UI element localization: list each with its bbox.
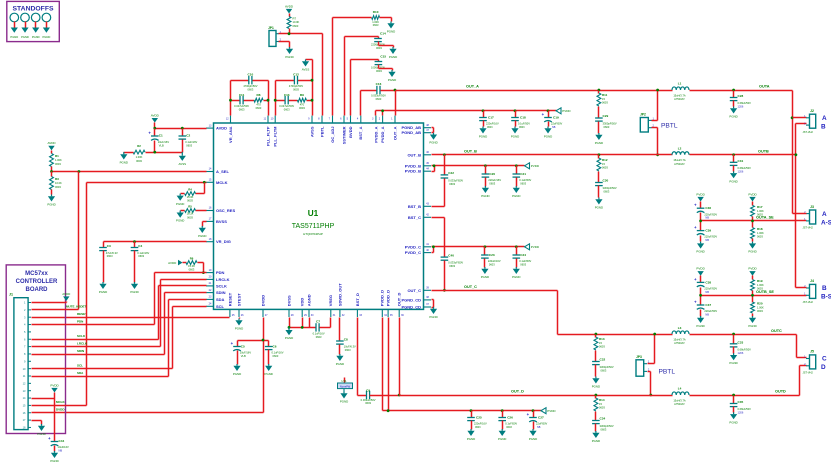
power flag AVDD (C1): [151, 113, 160, 122]
svg-text:0603: 0603: [520, 263, 526, 267]
wire R10 to ground: [380, 17, 392, 19]
svg-text:PVDD: PVDD: [547, 409, 556, 413]
resistor R10: [372, 10, 380, 27]
U1 pin 37 PGND_CD: [401, 303, 431, 309]
ground C15: [388, 70, 396, 82]
svg-text:C36: C36: [705, 206, 711, 210]
svg-text:OUTB: OUTB: [758, 149, 769, 153]
svg-text:10uF/6.3V: 10uF/6.3V: [344, 344, 356, 348]
U1 pin 21 SCLK: [206, 282, 227, 288]
ground C28: [729, 107, 737, 119]
wire JP2.2 to OUT_B: [652, 127, 658, 129]
svg-text:C24: C24: [520, 253, 526, 257]
svg-text:0603: 0603: [376, 97, 382, 101]
svg-text:220uF/50V: 220uF/50V: [704, 309, 717, 313]
wire C9 to OUT_D: [370, 395, 400, 397]
svg-text:0603: 0603: [136, 159, 142, 163]
svg-text:3300pF/50V: 3300pF/50V: [603, 186, 617, 190]
svg-text:A7503AY: A7503AY: [674, 162, 685, 166]
ground C44: [50, 451, 58, 463]
U1 pin 33 BST_D: [355, 293, 363, 317]
jumper JP3: [636, 355, 650, 376]
net SCL wire (J1): [32, 368, 173, 370]
svg-text:C28: C28: [738, 94, 744, 98]
svg-text:OUT_A: OUT_A: [392, 126, 397, 140]
svg-text:PVDD: PVDD: [531, 245, 540, 249]
svg-text:0603: 0603: [273, 354, 279, 358]
svg-text:PGND: PGND: [176, 202, 184, 206]
svg-text:PGND: PGND: [729, 420, 737, 424]
connector J3: [803, 205, 831, 230]
svg-text:0603: 0603: [601, 428, 607, 432]
svg-text:DVSS: DVSS: [286, 295, 291, 306]
resistor R9: [297, 93, 306, 110]
capacitor C2: [179, 129, 198, 153]
svg-text:0.1uF/50V: 0.1uF/50V: [505, 422, 517, 426]
U1 pin 19 PDN: [206, 269, 225, 275]
wire RESET to J1: [229, 317, 231, 319]
svg-text:J5: J5: [810, 350, 814, 354]
svg-text:0.68uF/50V: 0.68uF/50V: [738, 101, 752, 105]
power flag AVDD (R6): [168, 260, 182, 266]
U1 pin 31 VREG: [328, 295, 336, 317]
svg-text:C35: C35: [738, 400, 744, 404]
svg-text:PGND: PGND: [47, 203, 55, 207]
svg-text:PDN: PDN: [77, 320, 83, 324]
wire JP1.2 to ground: [279, 41, 290, 43]
U1 pin 17 BVSS: [206, 218, 227, 224]
U1 pin 1 OUT_A: [391, 116, 397, 140]
svg-text:PGND: PGND: [21, 35, 29, 39]
net A_SEL wire: [52, 171, 207, 173]
svg-text:PGND: PGND: [481, 194, 489, 198]
svg-text:PBTL: PBTL: [661, 123, 678, 130]
wire BST_D to C9: [357, 318, 359, 396]
svg-text:OUTD: OUTD: [775, 389, 786, 393]
ground C21: [512, 186, 520, 198]
ground STEST: [239, 318, 241, 319]
svg-text:R17: R17: [757, 205, 763, 209]
capacitor C24: [513, 245, 532, 267]
svg-text:PGND: PGND: [388, 78, 396, 82]
svg-text:PVDD: PVDD: [696, 192, 705, 196]
svg-text:0603: 0603: [599, 406, 605, 410]
svg-text:R3: R3: [55, 177, 59, 181]
svg-text:C5: C5: [241, 344, 245, 348]
U1 pin 35 PVDD_D: [386, 290, 394, 317]
ground C19: [544, 127, 552, 139]
svg-text:SDA: SDA: [216, 297, 225, 302]
svg-text:0.1uF/50V: 0.1uF/50V: [518, 122, 530, 126]
svg-text:PVDD: PVDD: [748, 192, 757, 196]
resistor R18: [751, 221, 764, 242]
svg-text:0603: 0603: [602, 166, 608, 170]
svg-text:22uF/50V: 22uF/50V: [536, 422, 548, 426]
net PDN wire (J1): [32, 324, 155, 326]
svg-text:R6: R6: [190, 256, 194, 260]
svg-text:10.0K: 10.0K: [55, 181, 62, 185]
capacitor C14: [371, 32, 386, 50]
U1 pin 26 STEST: [236, 293, 244, 317]
power flag PVDD (J1): [50, 383, 59, 392]
connector J4: [803, 279, 831, 304]
svg-text:BST_D: BST_D: [355, 293, 360, 306]
svg-text:PGND: PGND: [198, 234, 206, 238]
svg-text:A: A: [822, 211, 827, 218]
svg-text:MC57xx: MC57xx: [25, 271, 48, 277]
power flag PVDD (A rail): [556, 108, 571, 114]
svg-text:J1: J1: [9, 293, 13, 297]
svg-text:R2: R2: [137, 144, 141, 148]
power flag PVDD (OUTB_SE left): [696, 267, 705, 276]
svg-text:0603: 0603: [489, 182, 495, 186]
wire C5 C6 tap: [238, 340, 269, 342]
svg-text:C44: C44: [59, 439, 65, 443]
svg-text:LRCLK: LRCLK: [77, 342, 88, 346]
svg-text:OUT_C: OUT_C: [464, 285, 477, 289]
svg-text:PLL_FLTM: PLL_FLTM: [273, 126, 278, 147]
wire AVDD node: [154, 123, 156, 129]
net PVDD_B rail: [432, 165, 435, 167]
U1 pin 28 DVSS: [286, 295, 294, 317]
wire J2.2 to OUTB and J4.2: [796, 123, 807, 125]
svg-text:3300pF/50V: 3300pF/50V: [600, 365, 614, 369]
svg-text:R5: R5: [188, 204, 192, 208]
svg-text:PVDD: PVDD: [748, 267, 757, 271]
svg-text:PGND: PGND: [467, 437, 475, 441]
snubber R12: [598, 153, 601, 156]
svg-text:J4: J4: [810, 279, 814, 283]
svg-text:0603: 0603: [293, 24, 299, 28]
svg-text:C10: C10: [248, 72, 254, 76]
power flag PVDD (OUTA_SE left): [696, 192, 705, 201]
svg-text:PGND: PGND: [285, 55, 293, 59]
svg-text:C1: C1: [159, 134, 163, 138]
svg-text:OUT_C: OUT_C: [407, 288, 421, 293]
wire OUT_D pin down: [399, 318, 401, 396]
svg-text:VLB: VLB: [159, 143, 164, 147]
svg-text:J3: J3: [810, 205, 814, 209]
svg-text:18.2K: 18.2K: [187, 212, 194, 216]
svg-text:SDIN: SDIN: [216, 290, 226, 295]
svg-text:PGND: PGND: [235, 327, 243, 331]
svg-text:L4: L4: [678, 387, 682, 391]
svg-text:0.1uF/16V: 0.1uF/16V: [313, 331, 325, 335]
svg-text:0603: 0603: [449, 182, 455, 186]
capacitor C12: [289, 72, 303, 91]
net PDN wire: [155, 272, 207, 274]
svg-text:C27: C27: [538, 415, 544, 419]
power flag PVDD (OUTA_SE right): [748, 192, 757, 201]
svg-text:0603: 0603: [601, 369, 607, 373]
net PVDD wire (J1): [32, 398, 55, 400]
wire C1 C2 bottom rail: [146, 152, 183, 154]
svg-text:L1: L1: [678, 82, 682, 86]
ground R10: [387, 22, 395, 34]
net LRCLK wire (J1): [32, 346, 161, 348]
U1 pin 13 AVDD: [206, 124, 227, 130]
svg-text:0.1uF/16V: 0.1uF/16V: [272, 351, 284, 355]
svg-text:JST-VH2: JST-VH2: [803, 371, 814, 375]
U1 pin 5 BVDD: [347, 116, 353, 138]
svg-text:4700pF/50V: 4700pF/50V: [243, 84, 257, 88]
svg-text:0603: 0603: [757, 235, 763, 239]
ground C24: [512, 267, 520, 279]
svg-text:C6: C6: [273, 344, 277, 348]
net SDIN wire (J1): [32, 354, 165, 356]
net OUTD wire: [690, 395, 800, 397]
capacitor C18: [511, 109, 530, 129]
svg-text:PGND_AB: PGND_AB: [401, 130, 421, 135]
U1 pin 23 SDA: [206, 296, 225, 302]
power flag PVDD (OUTB_SE right): [748, 267, 757, 276]
svg-text:0603: 0603: [293, 88, 299, 92]
svg-text:15uH/3.7A: 15uH/3.7A: [673, 158, 686, 162]
svg-text:C13: C13: [284, 93, 290, 97]
svg-text:PGND: PGND: [336, 362, 344, 366]
svg-text:SCL: SCL: [77, 364, 83, 368]
capacitor C3: [99, 242, 118, 283]
capacitor C19: [542, 109, 563, 129]
svg-text:PGND: PGND: [50, 459, 58, 463]
svg-text:PVDD: PVDD: [696, 267, 705, 271]
svg-text:0603: 0603: [239, 108, 245, 112]
svg-text:A7503AY: A7503AY: [674, 97, 685, 101]
wire OUTA to J2.1: [791, 116, 794, 119]
wire J1.3 RESET: [31, 317, 33, 319]
svg-text:RESET: RESET: [227, 292, 232, 306]
U1 pin 30 AGND: [306, 294, 314, 317]
svg-text:B: B: [822, 285, 827, 292]
U1 pin 24 SCL: [206, 303, 225, 309]
svg-text:C39: C39: [705, 229, 711, 233]
U1 pin 22 SDIN: [206, 289, 226, 295]
svg-text:C25: C25: [476, 415, 482, 419]
svg-text:0603: 0603: [519, 126, 525, 129]
wire C7 to VREG: [320, 327, 331, 329]
svg-text:C40: C40: [448, 253, 454, 257]
capacitor C21: [513, 164, 532, 186]
capacitor C36: [694, 202, 717, 221]
svg-text:STANDOFFS: STANDOFFS: [12, 6, 53, 13]
wire C16 to OUT_A node: [381, 90, 396, 92]
svg-text:AVDD: AVDD: [216, 126, 227, 131]
svg-text:PGND: PGND: [529, 437, 537, 441]
svg-text:1.00K: 1.00K: [372, 20, 379, 24]
svg-text:PGND: PGND: [512, 194, 520, 198]
svg-text:C33: C33: [738, 340, 744, 344]
svg-text:PGND: PGND: [130, 290, 138, 294]
wire J4.2 stub: [796, 287, 807, 289]
standoff MH3: [31, 13, 40, 39]
svg-text:PGND: PGND: [99, 290, 107, 294]
U1 pin 39 OUT_C: [407, 287, 431, 293]
power flag PVDD (C rail): [525, 244, 540, 250]
wire BST_A to C16: [360, 91, 362, 116]
svg-text:15.0K: 15.0K: [188, 264, 195, 268]
svg-text:C14: C14: [380, 32, 386, 36]
op-amp U1 TAS5711PHP body: [214, 123, 424, 309]
svg-text:AVDD: AVDD: [62, 292, 71, 296]
ground R5: [176, 211, 184, 223]
ground R3: [47, 195, 55, 207]
svg-text:MCLK: MCLK: [56, 400, 65, 404]
wire R7 to node: [289, 29, 291, 34]
wire C14 to ground: [378, 42, 380, 46]
svg-text:PGND: PGND: [498, 437, 506, 441]
resistor R2: [124, 144, 146, 163]
svg-text:0603: 0603: [55, 185, 61, 189]
svg-text:J2: J2: [810, 109, 814, 113]
capacitor C17: [479, 109, 499, 129]
ground R4: [176, 194, 184, 206]
svg-text:LRCLK: LRCLK: [216, 277, 230, 282]
svg-text:0.033uF/50V: 0.033uF/50V: [371, 94, 386, 98]
svg-text:PGND: PGND: [595, 141, 603, 145]
svg-text:0603: 0603: [248, 88, 254, 92]
svg-text:U1: U1: [308, 209, 319, 218]
svg-text:C16: C16: [376, 82, 382, 86]
svg-text:AVSS: AVSS: [179, 162, 187, 166]
inductor L2: [672, 146, 689, 165]
svg-text:C11: C11: [239, 93, 245, 97]
svg-text:C15: C15: [380, 55, 386, 59]
svg-text:PGND: PGND: [595, 206, 603, 210]
svg-text:0603: 0603: [599, 345, 605, 349]
standoff MH1: [10, 13, 19, 39]
svg-text:C37: C37: [705, 303, 711, 307]
svg-text:0.033uF/50V: 0.033uF/50V: [448, 261, 463, 265]
svg-text:B: B: [821, 124, 826, 131]
svg-text:VDD: VDD: [300, 298, 305, 307]
svg-text:PGND: PGND: [32, 35, 40, 39]
svg-text:C29: C29: [603, 114, 609, 118]
svg-text:VLB: VLB: [241, 354, 246, 358]
svg-text:PVDD: PVDD: [531, 164, 540, 168]
svg-text:C18: C18: [520, 115, 526, 119]
svg-text:1.00K: 1.00K: [55, 158, 62, 162]
U1 pin 36 OUT_D: [397, 293, 405, 317]
svg-text:MUTE_HSDET: MUTE_HSDET: [66, 305, 87, 309]
U1 pin 11 PLL_FLTP: [263, 116, 270, 146]
svg-text:A-S: A-S: [821, 219, 831, 226]
U1 pin 45 PVDD_B: [405, 162, 431, 168]
svg-text:U71: U71: [341, 379, 347, 383]
U1 pin 38 PGND_CD: [401, 296, 431, 302]
svg-text:0603: 0603: [487, 126, 493, 129]
svg-text:3300pF/50V: 3300pF/50V: [603, 121, 617, 125]
svg-text:15uH/3.7A: 15uH/3.7A: [673, 338, 686, 342]
U1 pin 15 MCLK: [206, 179, 228, 185]
U1 pin 29 VDD: [300, 298, 308, 317]
svg-text:C12: C12: [293, 72, 299, 76]
svg-text:PVDD_D: PVDD_D: [386, 290, 391, 306]
ground C14: [389, 47, 397, 59]
svg-text:D: D: [821, 364, 826, 371]
svg-text:C34: C34: [600, 417, 606, 421]
controller board box: [6, 265, 65, 434]
svg-text:CONTROLLER: CONTROLLER: [16, 279, 58, 285]
svg-text:C8: C8: [344, 337, 348, 341]
svg-text:NB: NB: [705, 290, 709, 294]
svg-text:AVDD: AVDD: [47, 141, 56, 145]
svg-text:C26: C26: [507, 415, 513, 419]
svg-text:1.00K: 1.00K: [136, 155, 143, 159]
ground C17: [479, 127, 487, 139]
svg-text:PGND: PGND: [37, 432, 45, 436]
svg-text:1.00K: 1.00K: [757, 231, 764, 235]
capacitor C16 bootstrap A: [371, 82, 386, 101]
ground R2: [120, 152, 128, 164]
U1 pin 8 PBTL: [318, 116, 324, 137]
svg-text:0603: 0603: [107, 254, 113, 258]
svg-text:PGND: PGND: [389, 55, 397, 59]
svg-text:220uF/16V: 220uF/16V: [488, 178, 501, 182]
svg-text:0603: 0603: [376, 69, 382, 73]
svg-text:OUTC: OUTC: [771, 329, 782, 333]
wire C22 to BST_B: [432, 206, 445, 208]
wire BVSS to ground: [203, 221, 207, 223]
resistor R4: [181, 183, 205, 203]
svg-text:PGND: PGND: [748, 324, 756, 328]
capacitor C22 bootstrap B: [441, 155, 464, 207]
net OUTA wire: [690, 90, 793, 92]
ground C39: [696, 242, 704, 254]
svg-text:0.68uF/50V: 0.68uF/50V: [738, 407, 752, 411]
capacitor C13: [279, 93, 294, 112]
svg-text:PVDD_C: PVDD_C: [405, 244, 421, 249]
svg-text:PGND: PGND: [43, 35, 51, 39]
svg-text:OSC_RES: OSC_RES: [216, 208, 235, 213]
wire SSTIMER to C14: [344, 37, 346, 116]
net OUTC wire: [690, 334, 797, 336]
svg-text:3300pF/50V: 3300pF/50V: [600, 424, 614, 428]
U1 pin 41 PVDD_C: [405, 243, 431, 249]
svg-text:PGND: PGND: [285, 336, 293, 340]
svg-text:220uF/50V: 220uF/50V: [704, 212, 717, 216]
svg-text:JP3: JP3: [636, 355, 642, 359]
svg-text:4700pF/50V: 4700pF/50V: [289, 84, 303, 88]
U1 pin 4 BST_A: [357, 116, 363, 140]
capacitor C34: [592, 412, 614, 432]
svg-text:C21: C21: [520, 172, 526, 176]
svg-text:PVDD_A: PVDD_A: [380, 126, 385, 142]
svg-text:TAS5711PHP: TAS5711PHP: [292, 223, 335, 230]
svg-text:A_SEL: A_SEL: [216, 169, 229, 174]
svg-text:C7: C7: [316, 320, 320, 324]
ground C34: [592, 431, 600, 443]
capacitor C38: [694, 276, 717, 296]
net PVDD_A rail: [375, 111, 377, 116]
svg-text:1206: 1206: [738, 105, 744, 109]
capacitor C20: [482, 164, 502, 186]
svg-text:OUTA_SE: OUTA_SE: [756, 215, 774, 219]
capacitor C11: [234, 93, 249, 112]
svg-text:22uF/50V: 22uF/50V: [551, 122, 563, 126]
svg-text:0.68uF/50V: 0.68uF/50V: [738, 347, 752, 351]
svg-text:PGND: PGND: [176, 219, 184, 223]
svg-text:SDIN: SDIN: [77, 349, 84, 353]
svg-text:PGND: PGND: [696, 250, 704, 254]
svg-text:L2: L2: [678, 146, 682, 150]
svg-text:PGND: PGND: [481, 275, 489, 279]
capacitor C29: [595, 107, 617, 134]
capacitor C5: [231, 341, 252, 365]
ground C18: [511, 127, 519, 139]
capacitor C23: [481, 245, 501, 267]
ground C25: [467, 429, 475, 441]
svg-text:R18: R18: [757, 227, 763, 231]
